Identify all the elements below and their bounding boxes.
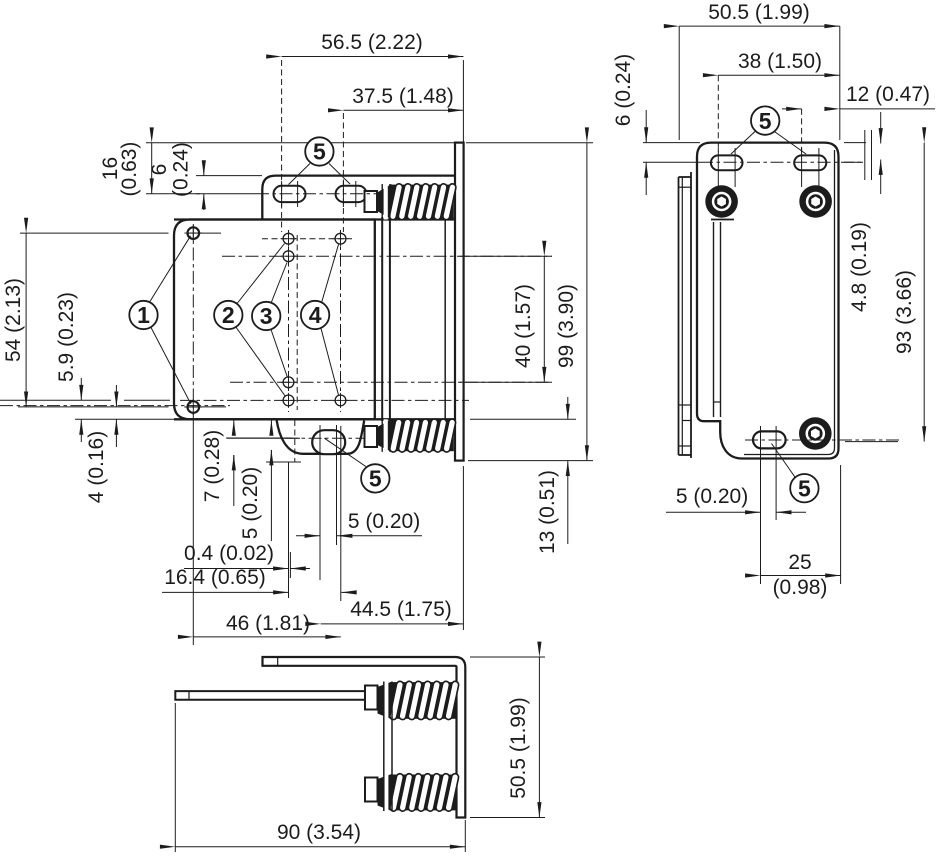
dim 5.9 [80,378,82,400]
slot 5e [794,155,826,170]
svg-text:50.5 (1.99): 50.5 (1.99) [708,1,810,24]
dim 93 [845,441,898,443]
dim 7 [233,420,235,432]
dim 4 [75,418,176,420]
svg-text:5 (0.20): 5 (0.20) [348,510,420,533]
spring block bottom v3 [365,778,378,802]
dim 5 v2 [760,453,762,520]
svg-text:(0.24): (0.24) [170,142,193,197]
callout 5 v2 top [731,131,756,155]
dim 56.5 [462,60,464,142]
svg-text:(0.63): (0.63) [118,142,141,197]
back plate V1 [455,143,464,461]
holes 1-4 [188,227,200,239]
dim 37.5 [343,109,463,111]
wire [174,143,464,461]
dim 5 bottom slot [319,458,321,580]
svg-text:1: 1 [137,302,150,328]
bottom view main bar [175,691,365,700]
dim 46 [192,413,194,645]
callout 1 [149,236,191,304]
bottom flange channel [277,419,365,454]
svg-text:12 (0.47): 12 (0.47) [846,83,930,106]
svg-text:38 (1.50): 38 (1.50) [738,50,822,73]
dim 54 [20,232,169,234]
svg-text:90 (3.54): 90 (3.54) [277,821,361,844]
bracket plate edges [381,217,383,421]
callout 5 top [289,164,311,185]
dim 0.4 [288,462,290,598]
svg-text:50.5 (1.99): 50.5 (1.99) [507,697,530,799]
dim 16.4 [340,426,342,601]
svg-text:40 (1.57): 40 (1.57) [512,284,535,368]
svg-text:54 (2.13): 54 (2.13) [2,278,25,362]
dim 6 v1 [196,175,262,177]
spring bottom v3 [392,775,457,811]
callout 3 [271,263,288,305]
spring bottom [365,426,378,447]
top flange [262,176,455,220]
body top edge [174,218,455,220]
body bottom edge [174,418,455,420]
svg-text:5: 5 [759,108,772,134]
svg-text:3: 3 [260,303,273,329]
plate inner edge line [744,150,835,455]
housing wall line [444,220,446,420]
screws [705,185,738,218]
slot 5d [711,155,743,170]
dim 6 v2 [643,142,700,144]
dim 25 [760,520,762,584]
dim 4.8 [844,142,866,144]
slot 5f [753,431,786,448]
svg-text:2: 2 [222,302,235,328]
dim 90 v3 [174,703,176,852]
dim 13 [470,418,576,420]
callout 4 [321,245,339,305]
svg-text:93 (3.66): 93 (3.66) [893,270,916,354]
svg-text:4.8 (0.19): 4.8 (0.19) [848,222,871,312]
dim 12 [782,108,802,110]
svg-text:46 (1.81): 46 (1.81) [226,612,310,635]
svg-text:5 (0.20): 5 (0.20) [239,467,262,539]
slot 5c bottom [312,430,345,454]
dim 99 [468,460,593,462]
svg-text:(0.98): (0.98) [773,576,828,599]
svg-text:7 (0.28): 7 (0.28) [201,430,224,502]
main body [174,220,375,420]
bottom view L-bracket [263,657,466,818]
svg-text:16.4 (0.65): 16.4 (0.65) [164,566,266,589]
slot 5b [336,186,367,202]
callout 5 bottom [324,438,369,469]
dim 44.5 [462,466,464,630]
svg-text:6 (0.24): 6 (0.24) [612,54,635,126]
svg-text:25: 25 [788,551,811,574]
dim 38 [718,74,840,76]
svg-text:4 (0.16): 4 (0.16) [85,431,108,503]
svg-text:37.5 (1.48): 37.5 (1.48) [352,85,454,108]
centerlines [196,193,256,195]
callout 2 [236,244,285,306]
dim 50.5 [678,26,680,140]
svg-text:5: 5 [369,466,382,492]
rear plate [697,143,839,459]
dim 50.5 v3 [470,656,545,658]
svg-text:44.5 (1.75): 44.5 (1.75) [350,598,452,621]
spring top [365,191,378,212]
svg-text:5: 5 [313,139,326,165]
svg-text:5.9 (0.23): 5.9 (0.23) [55,292,78,382]
spring block top v3 [365,686,378,710]
svg-text:4: 4 [309,302,322,328]
svg-text:5: 5 [798,475,811,501]
dim 16 [146,142,455,144]
svg-text:6: 6 [148,164,171,176]
callout 5 v2 bottom [772,444,798,481]
svg-text:99 (3.90): 99 (3.90) [555,284,578,368]
svg-text:13 (0.51): 13 (0.51) [536,470,559,554]
side flange strip [678,177,680,455]
inner rod lines [713,222,715,417]
svg-text:0.4 (0.02): 0.4 (0.02) [184,542,274,565]
plate lines v3 [384,682,388,720]
slot 5a [274,186,306,202]
centerlines v2 [643,161,700,163]
slot tick lines [281,181,283,207]
svg-text:5 (0.20): 5 (0.20) [676,485,748,508]
svg-text:56.5 (2.22): 56.5 (2.22) [321,31,423,54]
dim 5 v1-left [270,420,272,432]
spring top v3 [392,682,457,719]
dim 40 [460,255,552,257]
